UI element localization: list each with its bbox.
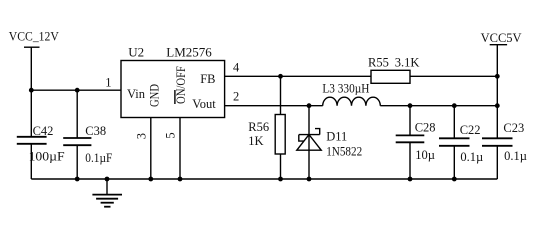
overline over ON xyxy=(174,90,176,104)
svg-text:D11: D11 xyxy=(326,130,347,144)
svg-text:1: 1 xyxy=(105,75,111,89)
diode D11 (schottky) xyxy=(297,129,321,151)
node junction pin3 bottom xyxy=(148,177,153,182)
wire C22 top xyxy=(453,106,455,139)
svg-text:Vin: Vin xyxy=(127,87,146,101)
wire C23 bottom xyxy=(496,146,498,179)
node junction C22 bottom xyxy=(452,177,457,182)
wire C22 bottom xyxy=(453,146,455,179)
wire C38 bottom xyxy=(76,145,78,179)
wire pin1 horizontal xyxy=(31,89,121,91)
power bar VCC_12V xyxy=(24,46,40,48)
node junction C38 bottom xyxy=(75,177,80,182)
node junction VCC/pin1 xyxy=(29,88,34,93)
svg-text:FB: FB xyxy=(200,72,215,86)
svg-text:VCC5V: VCC5V xyxy=(481,31,522,45)
svg-text:1N5822: 1N5822 xyxy=(326,144,362,158)
wire C28 top xyxy=(409,106,411,136)
node junction VCC5V/Vout xyxy=(495,103,500,108)
wire D11 vertical xyxy=(308,106,310,179)
node junction R56 top xyxy=(278,74,283,79)
resistor R56 xyxy=(275,115,285,155)
svg-text:3: 3 xyxy=(135,133,149,139)
svg-text:ON/OFF: ON/OFF xyxy=(174,66,188,104)
wire VCC5V vertical xyxy=(496,45,498,139)
svg-text:2: 2 xyxy=(233,90,239,104)
svg-text:C38: C38 xyxy=(85,124,106,138)
svg-text:100µF: 100µF xyxy=(29,150,65,164)
wire pin5 ON/OFF vertical xyxy=(179,118,181,180)
capacitor C38 xyxy=(63,138,91,145)
svg-text:5: 5 xyxy=(163,132,177,138)
svg-text:VCC_12V: VCC_12V xyxy=(9,30,59,44)
wire ground rail xyxy=(31,178,497,180)
svg-text:LM2576: LM2576 xyxy=(166,45,212,60)
svg-text:10µ: 10µ xyxy=(415,148,435,162)
node junction C28 top xyxy=(408,103,413,108)
wire C28 bottom xyxy=(409,142,411,179)
svg-text:GND: GND xyxy=(148,84,162,107)
node junction C28 bottom xyxy=(408,177,413,182)
wire FB line xyxy=(225,75,498,77)
svg-text:C22: C22 xyxy=(460,123,481,137)
node junction D11 bottom xyxy=(307,177,312,182)
svg-text:C42: C42 xyxy=(33,124,54,138)
capacitor C42 xyxy=(17,137,47,144)
capacitor C28 xyxy=(396,135,425,142)
svg-text:3.1K: 3.1K xyxy=(395,55,420,69)
capacitor C23 xyxy=(482,138,513,146)
svg-text:4: 4 xyxy=(233,60,240,74)
node junction D11/L3 xyxy=(307,103,312,108)
svg-text:C23: C23 xyxy=(503,121,524,135)
svg-text:L3 330µH: L3 330µH xyxy=(322,82,369,96)
power bar VCC5V xyxy=(490,44,507,46)
node junction C38 top xyxy=(75,88,80,93)
wire pin3 GND vertical xyxy=(150,118,152,180)
wire Vout line xyxy=(225,105,323,107)
node junction VCC5V/FB xyxy=(495,74,500,79)
ground xyxy=(92,179,122,207)
capacitor C22 xyxy=(439,138,470,146)
node junction R56 bottom xyxy=(278,177,283,182)
svg-text:1K: 1K xyxy=(248,134,263,148)
wire C38 top vertical xyxy=(76,90,78,138)
svg-text:0.1µ: 0.1µ xyxy=(504,149,527,163)
svg-text:0.1µ: 0.1µ xyxy=(460,150,483,164)
node junction ground stub xyxy=(105,177,110,182)
inductor L3 xyxy=(323,97,381,106)
wire after L3 xyxy=(380,105,497,107)
node junction C22 top xyxy=(452,103,457,108)
wire C42 bottom xyxy=(30,144,32,179)
svg-text:C28: C28 xyxy=(415,121,436,135)
wire VCC_12V vertical to C42 xyxy=(30,47,32,136)
node junction pin5 bottom xyxy=(178,177,183,182)
op-amp U2 LM2576 box xyxy=(121,61,225,118)
svg-text:U2: U2 xyxy=(128,45,144,60)
svg-text:0.1µF: 0.1µF xyxy=(85,151,112,165)
resistor R55 xyxy=(371,70,410,83)
svg-text:R56: R56 xyxy=(248,120,269,134)
wire R56 vertical xyxy=(280,76,282,179)
svg-text:R55: R55 xyxy=(368,55,389,69)
svg-text:Vout: Vout xyxy=(192,97,216,111)
